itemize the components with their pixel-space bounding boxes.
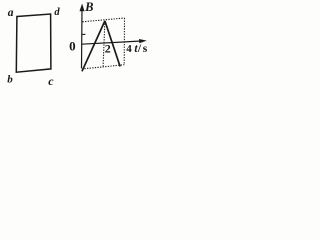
B(t) rising segment: [82, 21, 105, 71]
B axis (vertical): [81, 9, 84, 68]
svg-text:2: 2: [105, 42, 111, 56]
svg-text:t/s: t/s: [134, 43, 147, 55]
dashed line +B0 (top): [83, 18, 125, 22]
svg-text:b: b: [7, 74, 13, 86]
dashed line -B0 (bottom): [82, 65, 125, 69]
svg-text:a: a: [8, 7, 14, 19]
B axis small tick: [82, 33, 86, 35]
dashed vertical at t=2: [103, 21, 105, 66]
t axis (horizontal): [81, 41, 141, 44]
svg-text:4: 4: [126, 43, 132, 55]
svg-text:c: c: [48, 74, 54, 87]
svg-text:B: B: [84, 0, 93, 14]
coil rectangle abcd: [16, 14, 51, 72]
t axis arrowhead: [139, 39, 147, 43]
B axis arrowhead: [80, 4, 85, 12]
svg-text:d: d: [54, 7, 60, 18]
dashed vertical at t=4: [123, 18, 125, 65]
svg-text:0: 0: [69, 39, 76, 54]
B(t) falling segment: [105, 21, 120, 67]
